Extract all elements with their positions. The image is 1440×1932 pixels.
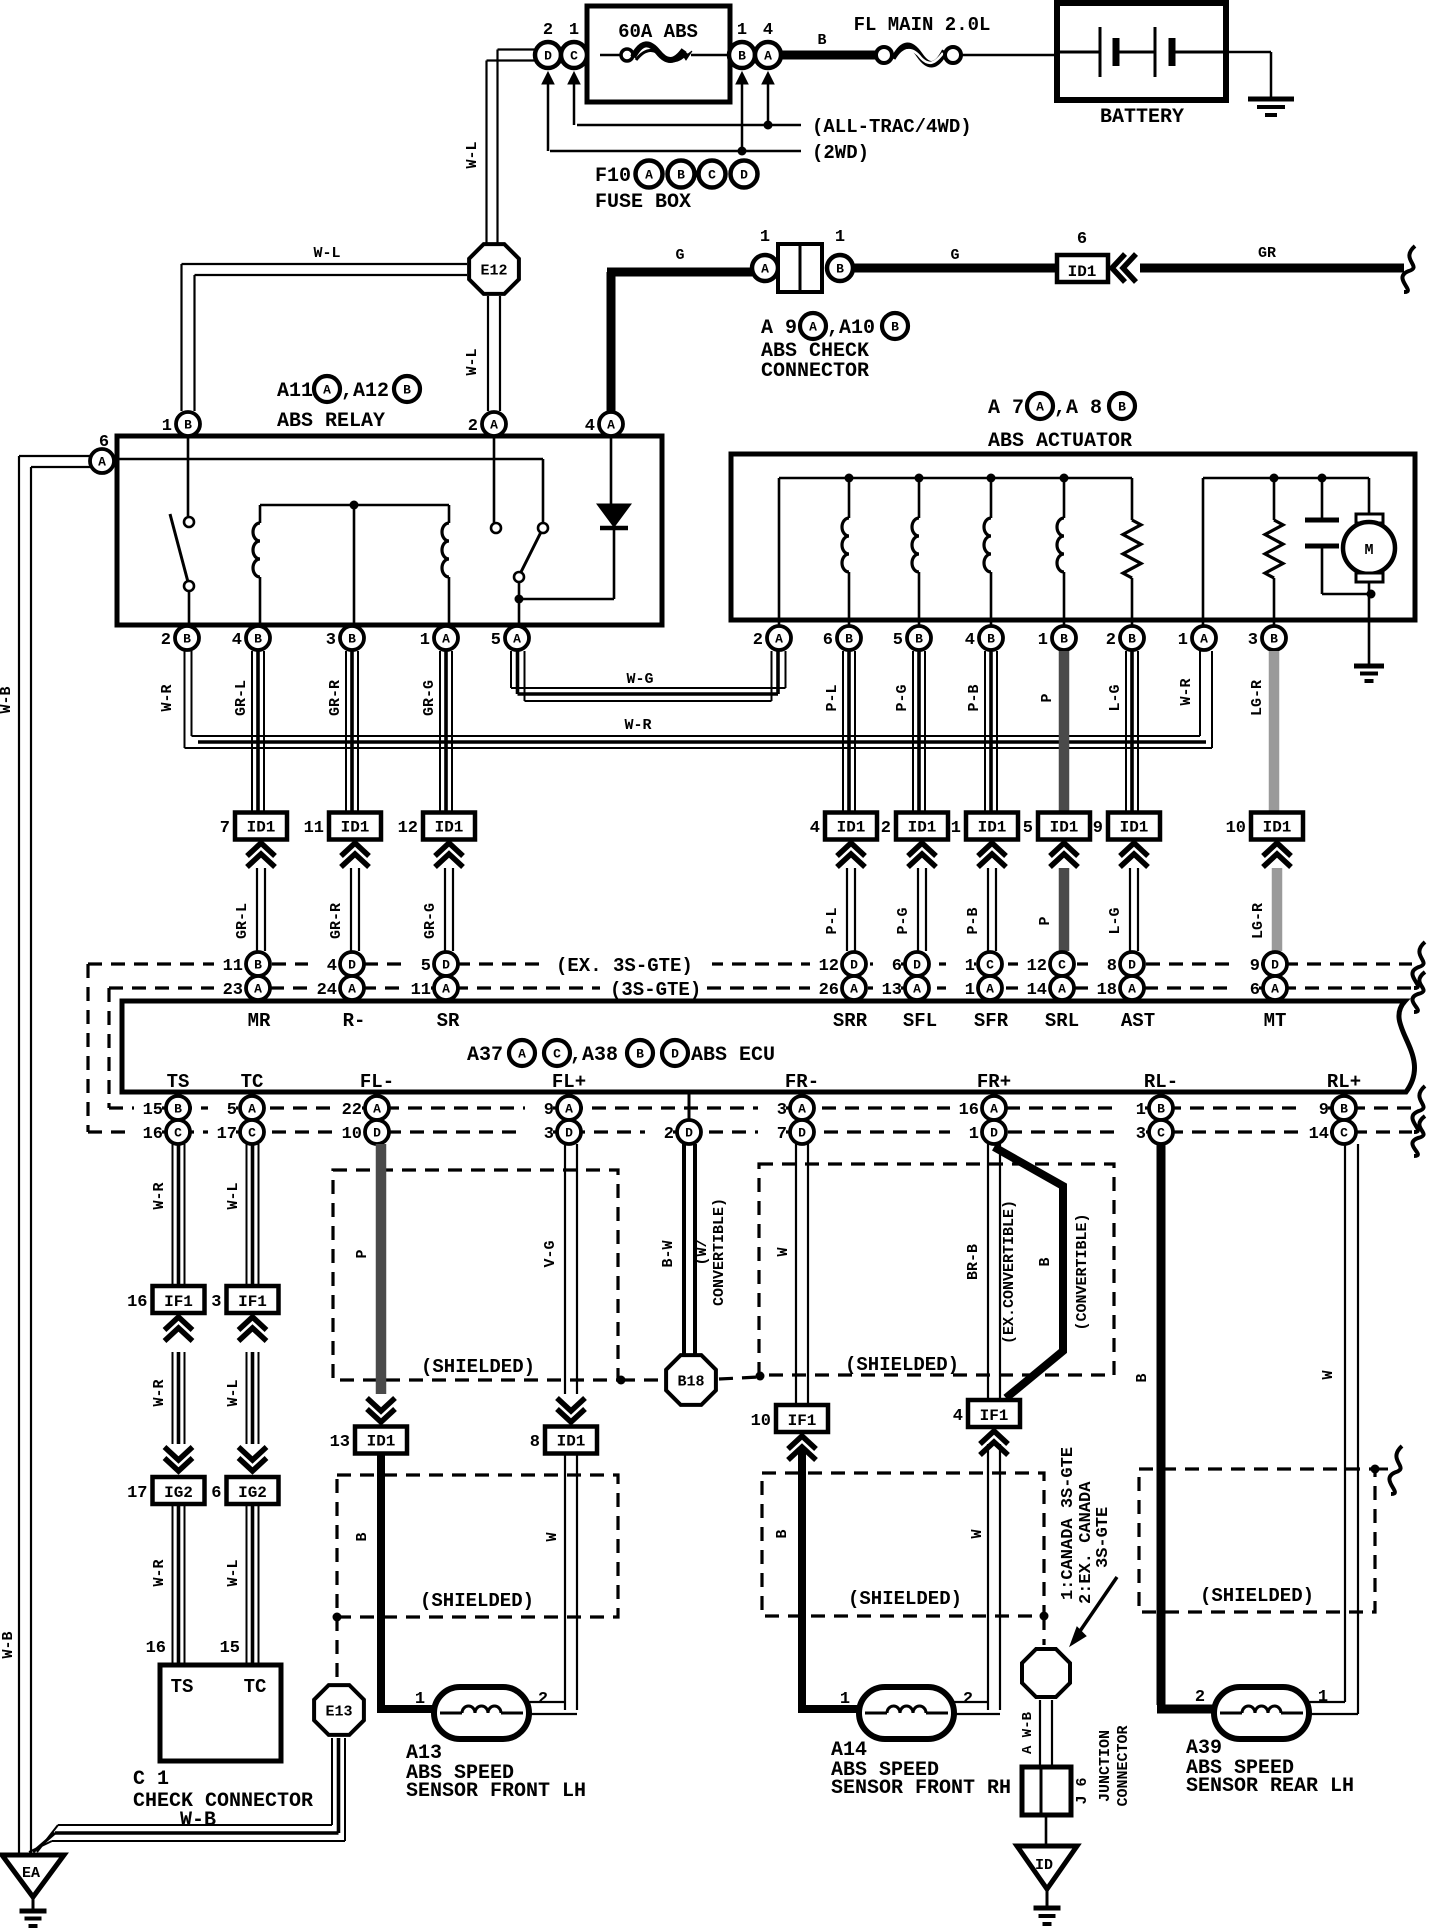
svg-text:1: 1 (162, 417, 172, 436)
svg-text:4: 4 (585, 417, 595, 436)
svg-text:P-G: P-G (894, 684, 911, 711)
svg-text:2: 2 (664, 1125, 674, 1144)
svg-text:1: 1 (420, 631, 430, 650)
svg-text:A: A (913, 982, 921, 997)
svg-text:SENSOR FRONT RH: SENSOR FRONT RH (831, 1777, 1011, 1800)
svg-text:1: 1 (840, 1690, 850, 1709)
svg-text:W-L: W-L (225, 1182, 242, 1209)
svg-text:A: A (1128, 982, 1136, 997)
svg-text:FUSE BOX: FUSE BOX (595, 191, 691, 214)
svg-text:1: 1 (951, 819, 961, 838)
svg-text:11: 11 (223, 957, 243, 976)
svg-text:A: A (98, 455, 106, 470)
svg-text:C 1: C 1 (133, 1768, 169, 1791)
svg-text:D: D (1128, 958, 1136, 973)
svg-text:A: A (607, 418, 615, 433)
svg-text:,A 8: ,A 8 (1054, 397, 1102, 420)
svg-text:BR-B: BR-B (965, 1244, 982, 1280)
svg-text:4: 4 (327, 957, 337, 976)
svg-text:1: 1 (835, 228, 845, 247)
svg-text:B: B (403, 383, 411, 398)
svg-text:17: 17 (127, 1484, 147, 1503)
svg-text:FR+: FR+ (977, 1071, 1011, 1093)
svg-text:TS: TS (171, 1676, 194, 1698)
svg-text:(ALL-TRAC/4WD): (ALL-TRAC/4WD) (812, 116, 972, 138)
svg-text:3: 3 (211, 1293, 221, 1312)
svg-text:A: A (850, 982, 858, 997)
svg-text:1:CANADA 3S-GTE: 1:CANADA 3S-GTE (1059, 1447, 1078, 1600)
svg-text:1: 1 (415, 1690, 425, 1709)
svg-text:9: 9 (1093, 819, 1103, 838)
svg-text:D: D (1271, 958, 1279, 973)
svg-text:12: 12 (819, 957, 839, 976)
svg-text:ID1: ID1 (837, 819, 866, 837)
svg-text:SENSOR REAR LH: SENSOR REAR LH (1186, 1775, 1354, 1798)
svg-text:(CONVERTIBLE): (CONVERTIBLE) (1074, 1213, 1091, 1330)
svg-text:13: 13 (330, 1433, 350, 1452)
svg-text:W-R: W-R (624, 717, 651, 734)
svg-text:AST: AST (1121, 1010, 1155, 1032)
svg-text:C: C (1058, 958, 1066, 973)
svg-text:A: A (775, 632, 783, 647)
svg-text:W-L: W-L (313, 245, 340, 262)
svg-text:D: D (671, 1047, 679, 1062)
svg-text:(SHIELDED): (SHIELDED) (421, 1356, 535, 1378)
svg-text:B: B (774, 1529, 791, 1538)
svg-text:CONVERTIBLE): CONVERTIBLE) (711, 1198, 728, 1306)
svg-text:W: W (775, 1247, 792, 1256)
svg-text:B: B (636, 1047, 644, 1062)
svg-text:2: 2 (161, 631, 171, 650)
svg-text:W-R: W-R (159, 684, 176, 711)
svg-text:ABS RELAY: ABS RELAY (277, 410, 385, 433)
svg-text:A 7: A 7 (988, 397, 1024, 420)
svg-text:IF1: IF1 (980, 1407, 1009, 1425)
svg-text:D: D (685, 1126, 693, 1141)
svg-text:14: 14 (1309, 1125, 1329, 1144)
svg-text:M: M (1364, 542, 1373, 559)
svg-text:6: 6 (892, 957, 902, 976)
svg-text:C: C (174, 1126, 182, 1141)
svg-text:A W-B: A W-B (1020, 1711, 1036, 1754)
svg-text:P-B: P-B (966, 684, 983, 711)
svg-text:13: 13 (882, 981, 902, 1000)
svg-text:R-: R- (343, 1010, 366, 1032)
svg-text:P-L: P-L (824, 684, 841, 711)
svg-text:ID: ID (1035, 1857, 1053, 1874)
svg-text:3: 3 (1136, 1125, 1146, 1144)
svg-text:11: 11 (411, 981, 431, 1000)
svg-text:A: A (490, 418, 498, 433)
svg-text:GR-G: GR-G (421, 680, 438, 716)
svg-text:2: 2 (1195, 1688, 1205, 1707)
svg-text:1: 1 (969, 1125, 979, 1144)
svg-text:A: A (248, 1102, 256, 1117)
svg-text:B: B (354, 1532, 371, 1541)
svg-text:A: A (442, 632, 450, 647)
svg-text:B: B (1118, 400, 1126, 415)
svg-text:2: 2 (543, 21, 553, 40)
svg-text:D: D (348, 958, 356, 973)
svg-text:GR-R: GR-R (327, 680, 344, 716)
svg-text:C: C (1157, 1126, 1165, 1141)
svg-text:EA: EA (22, 1865, 40, 1882)
svg-text:3: 3 (1248, 631, 1258, 650)
svg-text:9: 9 (1250, 957, 1260, 976)
svg-text:A11: A11 (277, 380, 313, 403)
svg-text:1: 1 (1178, 631, 1188, 650)
svg-text:B: B (836, 262, 844, 277)
svg-text:5: 5 (227, 1101, 237, 1120)
svg-text:GR-R: GR-R (328, 903, 345, 939)
svg-text:(SHIELDED): (SHIELDED) (1200, 1585, 1314, 1607)
svg-text:BATTERY: BATTERY (1100, 106, 1184, 129)
svg-text:B: B (1128, 632, 1136, 647)
svg-text:P-L: P-L (824, 907, 841, 934)
svg-text:RL+: RL+ (1327, 1071, 1361, 1093)
svg-text:P: P (1037, 916, 1054, 925)
svg-text:GR-L: GR-L (234, 903, 251, 939)
svg-text:W-B: W-B (0, 1631, 17, 1658)
svg-text:LG-R: LG-R (1249, 680, 1266, 716)
svg-text:5: 5 (491, 631, 501, 650)
svg-text:A: A (990, 1102, 998, 1117)
svg-text:6: 6 (823, 631, 833, 650)
svg-text:16: 16 (127, 1293, 147, 1312)
svg-text:B: B (254, 632, 262, 647)
svg-text:IF1: IF1 (788, 1412, 817, 1430)
svg-text:(3S-GTE): (3S-GTE) (610, 979, 701, 1001)
svg-text:E13: E13 (325, 1703, 352, 1720)
svg-text:A: A (761, 262, 769, 277)
svg-text:1: 1 (965, 957, 975, 976)
svg-text:A: A (323, 383, 331, 398)
svg-text:C: C (986, 958, 994, 973)
svg-text:IF1: IF1 (164, 1293, 193, 1311)
svg-text:LG-R: LG-R (1250, 903, 1267, 939)
svg-text:4: 4 (965, 631, 975, 650)
svg-text:SFR: SFR (974, 1010, 1009, 1032)
svg-text:C: C (708, 168, 716, 183)
svg-text:C: C (553, 1047, 561, 1062)
svg-text:GR-L: GR-L (233, 680, 250, 716)
svg-text:SRL: SRL (1045, 1010, 1079, 1032)
svg-text:SRR: SRR (833, 1010, 868, 1032)
svg-text:23: 23 (223, 981, 243, 1000)
svg-text:W-R: W-R (151, 1182, 168, 1209)
svg-text:W-B: W-B (180, 1809, 216, 1832)
svg-text:A: A (798, 1102, 806, 1117)
svg-text:B: B (1157, 1102, 1165, 1117)
svg-text:12: 12 (1027, 957, 1047, 976)
svg-text:FL MAIN 2.0L: FL MAIN 2.0L (854, 14, 991, 36)
svg-text:2: 2 (538, 1690, 548, 1709)
svg-text:W: W (544, 1532, 561, 1541)
svg-text:A: A (1058, 982, 1066, 997)
svg-text:D: D (990, 1126, 998, 1141)
svg-text:P: P (1039, 693, 1056, 702)
svg-text:3S-GTE: 3S-GTE (1094, 1507, 1113, 1568)
svg-text:6: 6 (1250, 981, 1260, 1000)
svg-text:B: B (1037, 1257, 1054, 1266)
svg-text:8: 8 (1107, 957, 1117, 976)
svg-text:B: B (183, 632, 191, 647)
svg-text:6: 6 (211, 1484, 221, 1503)
svg-text:P-G: P-G (895, 907, 912, 934)
svg-text:3: 3 (544, 1125, 554, 1144)
svg-text:D: D (740, 168, 748, 183)
svg-text:B: B (677, 168, 685, 183)
svg-text:17: 17 (217, 1125, 237, 1144)
svg-text:B: B (845, 632, 853, 647)
svg-text:5: 5 (893, 631, 903, 650)
svg-text:TC: TC (244, 1676, 267, 1698)
svg-text:10: 10 (751, 1412, 771, 1431)
svg-text:(SHIELDED): (SHIELDED) (420, 1590, 534, 1612)
svg-text:D: D (565, 1126, 573, 1141)
svg-text:L-G: L-G (1107, 907, 1124, 934)
svg-text:D: D (544, 49, 552, 64)
svg-text:G: G (675, 247, 684, 264)
svg-text:4: 4 (810, 819, 820, 838)
svg-text:ABS ACTUATOR: ABS ACTUATOR (988, 430, 1132, 453)
svg-text:1: 1 (965, 981, 975, 1000)
svg-text:F10: F10 (595, 165, 631, 188)
svg-text:C: C (1340, 1126, 1348, 1141)
svg-text:FL+: FL+ (552, 1071, 586, 1093)
svg-text:,A10: ,A10 (827, 317, 875, 340)
svg-text:9: 9 (544, 1101, 554, 1120)
svg-text:7: 7 (220, 819, 230, 838)
svg-text:(2WD): (2WD) (812, 142, 869, 164)
svg-text:16: 16 (959, 1101, 979, 1120)
svg-text:10: 10 (1226, 819, 1246, 838)
svg-text:CONNECTOR: CONNECTOR (761, 360, 869, 383)
svg-text:B: B (915, 632, 923, 647)
svg-text:ID1: ID1 (247, 819, 276, 837)
svg-text:B18: B18 (677, 1373, 704, 1390)
svg-text:FL-: FL- (360, 1071, 394, 1093)
svg-text:W-G: W-G (626, 671, 653, 688)
svg-text:W: W (969, 1529, 986, 1538)
svg-text:D: D (442, 958, 450, 973)
svg-text:9: 9 (1319, 1101, 1329, 1120)
svg-text:11: 11 (304, 819, 324, 838)
svg-text:ID1: ID1 (557, 1433, 586, 1451)
svg-text:A: A (348, 982, 356, 997)
svg-text:SENSOR FRONT LH: SENSOR FRONT LH (406, 1780, 586, 1803)
svg-text:14: 14 (1027, 981, 1047, 1000)
svg-text:A: A (1271, 982, 1279, 997)
svg-text:18: 18 (1097, 981, 1117, 1000)
svg-text:B: B (348, 632, 356, 647)
svg-text:B: B (817, 32, 826, 49)
svg-text:FR-: FR- (785, 1071, 819, 1093)
svg-text:GR-G: GR-G (422, 903, 439, 939)
svg-text:ID1: ID1 (1050, 819, 1079, 837)
svg-text:15: 15 (143, 1101, 163, 1120)
svg-text:W-R: W-R (151, 1379, 168, 1406)
svg-text:24: 24 (317, 981, 337, 1000)
svg-text:A 9: A 9 (761, 317, 797, 340)
svg-text:2: 2 (753, 631, 763, 650)
svg-text:B: B (174, 1102, 182, 1117)
svg-text:22: 22 (342, 1101, 362, 1120)
svg-text:B: B (1340, 1102, 1348, 1117)
svg-text:B: B (184, 418, 192, 433)
svg-text:MR: MR (248, 1010, 271, 1032)
svg-text:(W/: (W/ (694, 1238, 711, 1265)
svg-text:W-R: W-R (151, 1559, 168, 1586)
svg-text:E12: E12 (480, 262, 507, 279)
svg-text:2: 2 (1106, 631, 1116, 650)
svg-text:W-L: W-L (464, 348, 481, 375)
svg-text:W-L: W-L (464, 141, 481, 168)
svg-text:A: A (986, 982, 994, 997)
svg-text:V-G: V-G (542, 1240, 559, 1267)
svg-text:5: 5 (1023, 819, 1033, 838)
svg-text:ID1: ID1 (435, 819, 464, 837)
svg-text:ABS ECU: ABS ECU (691, 1044, 775, 1067)
svg-text:L-G: L-G (1107, 684, 1124, 711)
svg-text:A37: A37 (467, 1044, 503, 1067)
svg-text:TS: TS (167, 1071, 190, 1093)
svg-text:B: B (254, 958, 262, 973)
svg-text:A: A (565, 1102, 573, 1117)
svg-text:1: 1 (1318, 1688, 1328, 1707)
svg-text:ID1: ID1 (1120, 819, 1149, 837)
svg-text:(SHIELDED): (SHIELDED) (845, 1354, 959, 1376)
svg-text:W: W (1320, 1370, 1337, 1379)
svg-text:A: A (254, 982, 262, 997)
svg-text:CONNECTOR: CONNECTOR (1115, 1725, 1132, 1806)
svg-text:IF1: IF1 (238, 1293, 267, 1311)
svg-text:C: C (248, 1126, 256, 1141)
svg-text:ID1: ID1 (1263, 819, 1292, 837)
svg-text:G: G (950, 247, 959, 264)
svg-text:(EX.CONVERTIBLE): (EX.CONVERTIBLE) (1001, 1200, 1018, 1344)
svg-text:B: B (1270, 632, 1278, 647)
svg-text:A: A (809, 320, 817, 335)
svg-text:3: 3 (326, 631, 336, 650)
svg-text:W-L: W-L (225, 1379, 242, 1406)
svg-text:10: 10 (342, 1125, 362, 1144)
svg-text:SR: SR (437, 1010, 460, 1032)
svg-text:D: D (373, 1126, 381, 1141)
svg-text:1: 1 (569, 21, 579, 40)
svg-text:A: A (442, 982, 450, 997)
svg-text:ID1: ID1 (1068, 263, 1097, 281)
svg-text:P-B: P-B (965, 907, 982, 934)
svg-text:2: 2 (881, 819, 891, 838)
svg-text:W-B: W-B (0, 686, 15, 713)
svg-text:D: D (798, 1126, 806, 1141)
svg-text:2: 2 (468, 417, 478, 436)
svg-text:RL-: RL- (1144, 1071, 1178, 1093)
svg-text:D: D (913, 958, 921, 973)
svg-text:4: 4 (953, 1407, 963, 1426)
svg-text:B: B (1134, 1373, 1151, 1382)
svg-text:3: 3 (777, 1101, 787, 1120)
svg-text:IG2: IG2 (164, 1484, 193, 1502)
svg-text:12: 12 (398, 819, 418, 838)
svg-text:(SHIELDED): (SHIELDED) (848, 1588, 962, 1610)
svg-text:A: A (1200, 632, 1208, 647)
svg-text:GR: GR (1258, 245, 1276, 262)
svg-text:P: P (354, 1249, 371, 1258)
svg-text:1: 1 (1136, 1101, 1146, 1120)
svg-text:4: 4 (763, 21, 773, 40)
svg-text:TC: TC (241, 1071, 264, 1093)
svg-text:A: A (645, 168, 653, 183)
svg-text:8: 8 (530, 1433, 540, 1452)
svg-text:16: 16 (143, 1125, 163, 1144)
svg-text:,A12: ,A12 (341, 380, 389, 403)
svg-text:6: 6 (1077, 230, 1087, 249)
svg-text:ID1: ID1 (908, 819, 937, 837)
svg-text:4: 4 (232, 631, 242, 650)
svg-text:(EX. 3S-GTE): (EX. 3S-GTE) (556, 955, 693, 977)
svg-text:D: D (850, 958, 858, 973)
svg-text:IG2: IG2 (238, 1484, 267, 1502)
svg-text:1: 1 (737, 21, 747, 40)
svg-text:W-L: W-L (225, 1559, 242, 1586)
svg-text:1: 1 (760, 228, 770, 247)
svg-text:SFL: SFL (903, 1010, 937, 1032)
svg-text:5: 5 (421, 957, 431, 976)
svg-text:B: B (891, 320, 899, 335)
svg-text:ID1: ID1 (341, 819, 370, 837)
svg-text:1: 1 (1038, 631, 1048, 650)
svg-text:B-W: B-W (660, 1240, 677, 1267)
svg-text:JUNCTION: JUNCTION (1097, 1730, 1114, 1802)
svg-text:J 6: J 6 (1074, 1777, 1091, 1804)
svg-text:B: B (987, 632, 995, 647)
svg-text:,A38: ,A38 (570, 1044, 618, 1067)
svg-text:A: A (764, 49, 772, 64)
svg-text:C: C (570, 49, 578, 64)
svg-text:ID1: ID1 (367, 1433, 396, 1451)
svg-text:B: B (738, 49, 746, 64)
svg-text:CHECK CONNECTOR: CHECK CONNECTOR (133, 1790, 313, 1813)
svg-text:2: 2 (963, 1690, 973, 1709)
svg-text:A: A (1036, 400, 1044, 415)
svg-text:7: 7 (777, 1125, 787, 1144)
svg-text:16: 16 (146, 1639, 166, 1658)
svg-text:A: A (518, 1047, 526, 1062)
svg-text:ID1: ID1 (978, 819, 1007, 837)
svg-text:6: 6 (99, 433, 109, 452)
svg-text:MT: MT (1264, 1010, 1287, 1032)
svg-text:W-R: W-R (1178, 678, 1195, 705)
svg-text:B: B (1060, 632, 1068, 647)
svg-text:26: 26 (819, 981, 839, 1000)
svg-text:15: 15 (220, 1639, 240, 1658)
svg-text:60A ABS: 60A ABS (618, 21, 698, 43)
svg-text:A: A (373, 1102, 381, 1117)
svg-text:A: A (513, 632, 521, 647)
